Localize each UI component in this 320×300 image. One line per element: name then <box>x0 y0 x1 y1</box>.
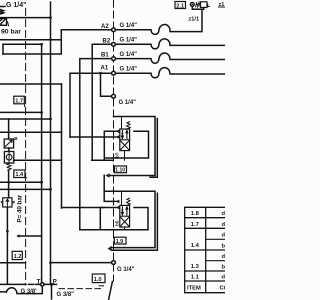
valve 1.9 top stub <box>121 191 123 205</box>
relief valve 1.1 (cut at left edge) spring <box>0 10 3 15</box>
svg-text:90 bar: 90 bar <box>1 29 21 36</box>
svg-text:d: d <box>222 275 226 281</box>
table item ITEM <box>187 285 201 291</box>
label G 3/8" second <box>57 292 75 298</box>
label G 1/4" lower port <box>119 100 137 106</box>
wire branch y=39.8 <box>0 39 61 41</box>
valve z1/1 side tick <box>208 4 210 6</box>
svg-text:2.1: 2.1 <box>176 3 184 9</box>
node port circle A1 <box>112 71 116 75</box>
svg-text:1.10: 1.10 <box>115 168 125 174</box>
node dot on component drain <box>7 181 10 184</box>
label b7 rotated at valve 1.10 <box>115 152 120 158</box>
label b5 rotated at valve 1.9 <box>115 220 120 226</box>
label box 1.4 <box>14 170 25 178</box>
label G 1/4" top-left port <box>6 2 26 9</box>
svg-text:A2: A2 <box>101 24 109 30</box>
component 1.4 meter circle <box>6 154 12 160</box>
wire T return with break symbol <box>0 286 42 293</box>
node port circle B1 <box>112 57 116 61</box>
label T <box>37 280 41 286</box>
wire underline at G 1/4" <box>0 6 5 8</box>
svg-text:B2: B2 <box>103 38 111 44</box>
svg-text:b: b <box>222 244 226 250</box>
node port circle A2 <box>112 28 116 32</box>
svg-text:B: B <box>14 136 18 141</box>
valve 1.2 pressure reducing body <box>3 198 12 207</box>
label G 1/4" row A1 <box>120 66 138 72</box>
valve z1/1 body <box>201 2 208 8</box>
svg-text:b: b <box>222 264 226 270</box>
label B1 <box>101 53 109 59</box>
wire z1/1 pilot <box>192 6 203 9</box>
svg-text:1.0: 1.0 <box>94 277 102 283</box>
node A1 branch dot <box>99 72 102 75</box>
wire A2 left run <box>3 30 112 54</box>
valve 1.9 bottom cell crossed <box>121 217 129 226</box>
wire A1 branch to lower G1/4 port <box>101 73 112 96</box>
relief valve 1.1 drain tick <box>8 22 9 26</box>
valve 1.9 bottom port stub <box>124 227 126 230</box>
valve 1.9 left port arrows <box>115 200 119 204</box>
wire branch y=112.4 <box>0 111 42 113</box>
svg-text:G 1/4": G 1/4" <box>117 267 135 273</box>
label box 1.7 <box>14 96 24 104</box>
svg-text:P: P <box>53 279 57 285</box>
node T bus dots <box>40 43 43 184</box>
table item 1.8 <box>191 211 200 217</box>
valve 1.10 spring <box>127 122 131 129</box>
valve 1.9 body <box>120 205 130 227</box>
block 1.10 inner subplate rect <box>104 131 148 160</box>
svg-text:G 3/8': G 3/8' <box>21 289 38 295</box>
wire B2 left run <box>92 44 112 160</box>
svg-text:1.9: 1.9 <box>116 239 124 245</box>
valve 1.2 left port arrow <box>1 201 3 204</box>
svg-text:z1/1: z1/1 <box>189 16 200 22</box>
wire center riser x=61.5 <box>61 84 63 208</box>
label z1/1 <box>189 16 200 22</box>
gauge port node z1/1 circle <box>190 3 194 7</box>
wire A1 right run with break symbol <box>115 68 225 78</box>
wire P continues down <box>51 284 53 299</box>
svg-text:T: T <box>37 280 41 286</box>
wire A2 right run with break symbol <box>115 9 202 34</box>
wire branch y=182.3 <box>0 181 42 183</box>
valve 1.10 top stub <box>121 117 123 130</box>
label A1 <box>101 66 109 72</box>
label P= 40 bar (rotated) <box>17 194 24 222</box>
wire feed to valve 1.9 lower port <box>62 207 116 209</box>
valve 1.10 top cell arrows <box>121 130 128 138</box>
table item 1.3 <box>191 264 200 270</box>
wire drain with arrow to T bus <box>20 235 42 237</box>
svg-text:d: d <box>222 233 226 239</box>
component 1.4 throttle body <box>4 139 13 148</box>
label A2 <box>101 24 109 30</box>
wire P bus to bottom node <box>51 262 112 264</box>
block 1.9 inner subplate rect <box>100 208 148 230</box>
svg-text:b7: b7 <box>115 152 120 158</box>
valve 1.9 top cell arrows <box>121 207 128 215</box>
valve 1.2 internal arrow <box>6 199 9 206</box>
wire component drain x=8.6 <box>8 170 10 197</box>
svg-text:b5: b5 <box>115 220 120 226</box>
block 1.10 enclosure shadow <box>150 119 157 178</box>
wire tick under 1.7 box <box>24 104 26 107</box>
dashed section line x=25.6 <box>25 9 27 286</box>
svg-text:1.4: 1.4 <box>15 172 24 178</box>
label B2 <box>103 38 111 44</box>
label G 1/4" bottom <box>117 267 135 273</box>
svg-text:1.7: 1.7 <box>15 98 23 104</box>
label G 1/4" row B2 <box>120 38 138 44</box>
svg-text:1.8: 1.8 <box>191 211 200 217</box>
wire left riser x=3 <box>2 44 4 54</box>
node T port circle <box>41 283 44 286</box>
block 1.9 enclosure shadow <box>112 193 157 250</box>
label G 1/4" row A2 <box>120 23 138 29</box>
wire B2 right run with break symbol <box>115 39 225 49</box>
svg-text:d: d <box>222 211 226 217</box>
wire B1 run bottom of block 1.9 <box>80 229 148 231</box>
relief valve 1.1 internal arrow <box>0 19 5 25</box>
table item 1.7 <box>191 222 199 228</box>
svg-text:d: d <box>222 254 226 260</box>
valve 1.10 body <box>120 129 130 151</box>
valve 1.10 left port arrows <box>115 130 119 134</box>
block 1.10 bottom arrow <box>105 173 109 177</box>
node P junction dot <box>50 283 53 286</box>
wire page edge slant <box>109 282 113 300</box>
label E tick beside 1.4 <box>14 136 18 141</box>
valve 1.9 spring <box>127 198 131 205</box>
table item 1.1 <box>191 275 200 281</box>
svg-text:G 3/8": G 3/8" <box>57 292 75 298</box>
node junction (50.5,17.6) <box>49 16 52 19</box>
valve z1/1 spring <box>196 2 201 6</box>
wire B2 to valve 1.10 bottom (right segment) <box>92 159 113 161</box>
wire dash under 1.0 <box>99 285 104 287</box>
wire dashed drain to tank <box>59 288 104 290</box>
block 1.9 bottom arrow <box>108 246 112 252</box>
wire feed y=84 <box>0 83 62 85</box>
svg-text:P= 40 bar: P= 40 bar <box>17 194 24 222</box>
node P bus dots <box>49 38 52 264</box>
node port circle lower G1/4 <box>112 94 116 98</box>
component 1.4 throttle arrow <box>5 140 12 146</box>
block 1.10 enclosure <box>109 117 155 176</box>
component 1.4 inlet riser <box>8 119 10 139</box>
label box 1.0 <box>92 274 105 283</box>
svg-text:ITEM: ITEM <box>187 285 201 291</box>
wire 1.2 outlet down <box>6 207 8 283</box>
svg-text:1.4: 1.4 <box>191 243 200 249</box>
svg-text:1.2: 1.2 <box>14 254 22 260</box>
dashed section line x=113.5 <box>113 0 115 281</box>
wire bottom manifold <box>0 283 57 285</box>
wire T bus x=41.6 <box>41 44 43 282</box>
wire B1 right run with break symbol <box>115 53 225 63</box>
svg-text:B1: B1 <box>101 53 109 59</box>
wire A1 to valve 1.10 port <box>70 136 116 138</box>
wire branch y=119 <box>0 118 51 120</box>
svg-text:G 1/4": G 1/4" <box>120 66 138 72</box>
svg-text:A1: A1 <box>101 66 109 72</box>
label G 3/8' left <box>21 289 38 295</box>
valve 1.10 bottom cell crossed <box>121 141 129 150</box>
relief valve 1.1 body <box>0 19 7 26</box>
label G 1/4" row B1 <box>120 52 138 58</box>
component 1.4 meter body <box>8 148 10 152</box>
wire feed y=189.4 <box>0 188 51 190</box>
svg-text:G 1/4": G 1/4" <box>120 23 138 29</box>
wire branch y=130.9 to center riser <box>0 131 62 133</box>
valve 1.2 right port arrow <box>12 201 14 204</box>
node port circle B2 <box>112 42 116 46</box>
svg-text:G 1/4": G 1/4" <box>119 100 137 106</box>
wire P bus x=50.5 <box>50 2 52 284</box>
valve 1.10 bottom port stub <box>124 151 126 161</box>
svg-text:CO: CO <box>220 285 226 291</box>
label P <box>53 279 57 285</box>
node port circle bottom G1/4 <box>112 261 116 265</box>
table partial dividers col2 <box>206 239 225 260</box>
block 1.9 enclosure <box>104 191 155 247</box>
wire top manifold y=17.6 <box>0 17 51 19</box>
wire branch y=44.3 <box>3 43 42 45</box>
node dot on 1.2 outlet <box>6 230 9 233</box>
svg-text:1.7: 1.7 <box>191 222 199 228</box>
wire B2 to valve 1.10 bottom (left segment) <box>14 159 62 161</box>
svg-text:1.3: 1.3 <box>191 264 200 270</box>
wire from block 1.10 to block 1.9 <box>104 175 116 201</box>
label box 1.2 <box>12 251 22 259</box>
label box 1.9 <box>114 237 126 244</box>
svg-text:1.1: 1.1 <box>191 275 200 281</box>
svg-text:G 1/4": G 1/4" <box>6 2 26 9</box>
table legend frame <box>185 207 206 292</box>
component 1.4 spring <box>7 163 11 170</box>
label box 2.1 <box>175 2 186 9</box>
wire B1 left run <box>80 59 112 230</box>
label box 1.10 <box>115 166 127 173</box>
svg-text:d: d <box>222 222 226 228</box>
label 90 bar <box>1 29 21 36</box>
wire port branch y=262.7 left <box>0 262 26 264</box>
svg-text:G 1/4": G 1/4" <box>120 52 138 58</box>
table col2 truncated text <box>220 211 229 291</box>
wire A1 left run <box>70 73 112 137</box>
label z1 (underlined, edge) <box>219 2 225 8</box>
svg-text:G 1/4": G 1/4" <box>120 38 138 44</box>
table item 1.4 <box>191 243 200 249</box>
